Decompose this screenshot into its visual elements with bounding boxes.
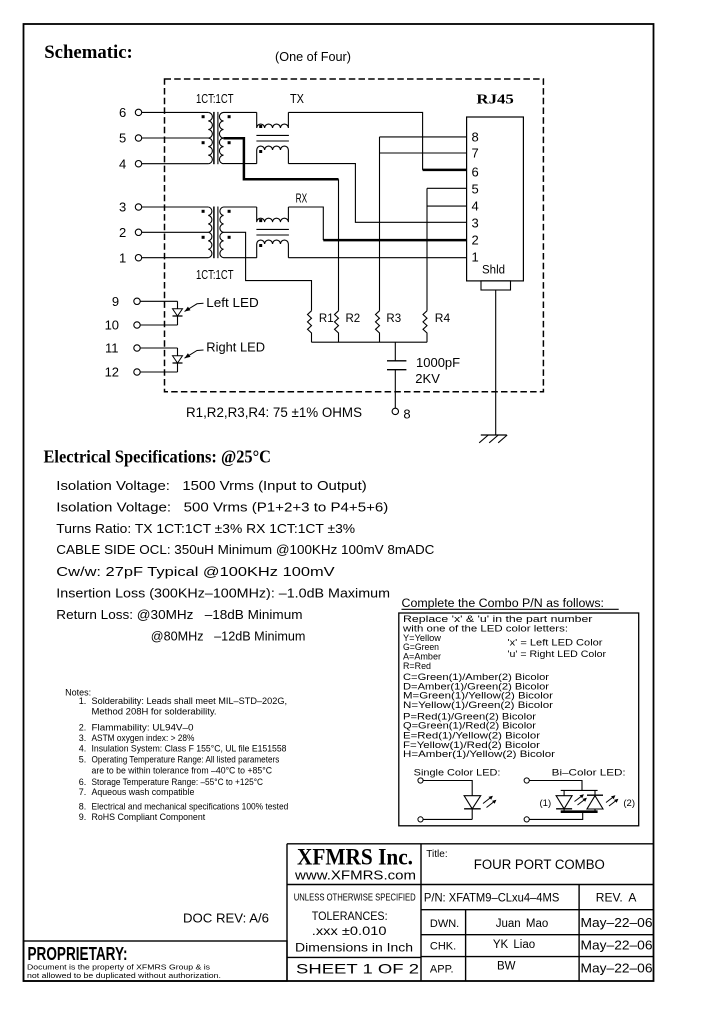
svg-text:7: 7 xyxy=(472,146,479,161)
svg-text:1000pF: 1000pF xyxy=(416,355,460,370)
transformer T2 primary dots xyxy=(202,210,205,213)
svg-text:Left LED: Left LED xyxy=(206,295,258,310)
svg-text:6: 6 xyxy=(472,164,479,179)
svg-text:3: 3 xyxy=(119,200,126,215)
choke RX top winding xyxy=(257,207,289,222)
svg-text:Solderability: Leads shall mee: Solderability: Leads shall meet MIL–STD–… xyxy=(92,696,288,706)
combo box frame xyxy=(399,613,639,826)
svg-text:R4: R4 xyxy=(435,311,451,325)
svg-text:R=Red: R=Red xyxy=(403,661,431,671)
svg-text:3.: 3. xyxy=(79,733,87,743)
wire RX bottom to RJ45 pin1 xyxy=(288,257,466,259)
node pin 4 xyxy=(135,161,141,167)
svg-text:(1): (1) xyxy=(540,798,552,809)
svg-text:Juan Mao: Juan Mao xyxy=(496,918,549,930)
wire T2 secondary bottom to RX choke bottom xyxy=(224,257,257,259)
wire TX top to RJ45 pin6 vertical route xyxy=(288,112,422,169)
node pin 5 xyxy=(135,135,141,141)
bicolor top rail xyxy=(561,789,598,791)
svg-text:Document is the property of XF: Document is the property of XFMRS Group … xyxy=(27,962,210,971)
transformer T1 primary dots xyxy=(202,115,205,118)
transformer T2 core xyxy=(213,207,215,259)
svg-text:6.: 6. xyxy=(79,777,87,787)
wire T1 secondary bottom to TX choke bottom xyxy=(224,163,257,165)
svg-text:10: 10 xyxy=(105,318,119,333)
bicolor bottom rail thick xyxy=(561,810,598,813)
svg-text:N=Yellow(1)/Green(2) Bicolor: N=Yellow(1)/Green(2) Bicolor xyxy=(403,700,553,710)
wire R2 vertical xyxy=(338,179,340,311)
svg-text:CHK.: CHK. xyxy=(430,940,456,952)
title block frame lines xyxy=(287,843,654,845)
svg-text:Aqueous wash compatible: Aqueous wash compatible xyxy=(92,787,195,797)
svg-text:8: 8 xyxy=(472,130,479,145)
svg-text:1CT:1CT: 1CT:1CT xyxy=(196,91,234,106)
svg-text:REV. A: REV. A xyxy=(596,891,637,905)
resistor R2 xyxy=(335,311,339,342)
choke TX top winding xyxy=(257,112,289,128)
wire thick stub to RJ45 pin2 xyxy=(323,239,466,242)
svg-text:May–22–06: May–22–06 xyxy=(581,961,653,975)
node pin 2 xyxy=(135,229,141,235)
svg-text:5.: 5. xyxy=(79,754,87,764)
resistor R1 xyxy=(308,311,312,342)
wire T1 secondary top to TX choke xyxy=(224,111,257,113)
transformer T1 secondary dots xyxy=(228,115,231,118)
bicolor wires top xyxy=(529,781,582,791)
node pin 6 xyxy=(135,109,141,115)
svg-text:CABLE SIDE OCL: 350uH Minimum: CABLE SIDE OCL: 350uH Minimum @100KHz 10… xyxy=(56,542,434,557)
choke TX top dot xyxy=(259,125,262,128)
transformer T2 secondary dots xyxy=(228,210,231,213)
wire thick stub to RJ45 pin6 xyxy=(423,169,467,172)
svg-text:Turns Ratio: TX 1CT:1CT ±3% RX: Turns Ratio: TX 1CT:1CT ±3% RX 1CT:1CT ±… xyxy=(56,521,355,536)
svg-text:(2): (2) xyxy=(623,798,635,809)
svg-text:May–22–06: May–22–06 xyxy=(581,916,653,930)
proprietary box xyxy=(24,941,288,981)
svg-text:Electrical and mechanical spec: Electrical and mechanical specifications… xyxy=(92,801,289,811)
wire T2 center tap route to R1 xyxy=(224,232,312,310)
node pin 9 xyxy=(134,298,140,304)
choke TX bottom dot xyxy=(259,150,262,153)
svg-text:'x' = Left LED Color: 'x' = Left LED Color xyxy=(508,638,603,648)
svg-text:Q=Green(1)/Red(2) Bicolor: Q=Green(1)/Red(2) Bicolor xyxy=(403,721,536,731)
wire RJ45 pin8 xyxy=(380,136,467,138)
svg-text:9: 9 xyxy=(112,294,119,309)
resistor R3 xyxy=(376,311,380,342)
svg-text:APP.: APP. xyxy=(430,963,454,975)
svg-text:4: 4 xyxy=(472,199,479,214)
wire resistor common rail xyxy=(312,341,428,343)
LED D2 right xyxy=(140,347,177,349)
svg-text:1: 1 xyxy=(472,250,479,265)
svg-text:2.: 2. xyxy=(79,722,87,732)
choke RX bottom dot xyxy=(259,244,262,247)
svg-text:7.: 7. xyxy=(79,787,87,797)
choke RX bottom winding xyxy=(257,240,289,258)
svg-text:5: 5 xyxy=(472,182,479,197)
wire RJ45 pin7 xyxy=(380,152,467,154)
svg-text:Method 208H for solderability.: Method 208H for solderability. xyxy=(92,706,217,716)
svg-text:1: 1 xyxy=(119,250,126,265)
svg-text:6: 6 xyxy=(119,105,126,120)
svg-text:Right LED: Right LED xyxy=(206,340,265,355)
svg-text:are to be within tolerance fro: are to be within tolerance from –40°C to… xyxy=(92,765,273,775)
bicolor LED D4 (1) xyxy=(563,790,565,795)
svg-text:Isolation Voltage: 500 Vrms: Isolation Voltage: 500 Vrms (P1+2+3 to P… xyxy=(56,500,388,515)
svg-text:BW: BW xyxy=(497,961,516,973)
svg-text:4: 4 xyxy=(119,156,126,171)
choke RX top dot xyxy=(259,219,262,222)
dashed schematic boundary box xyxy=(165,79,544,392)
transformer T2 secondary winding xyxy=(220,207,224,258)
svg-text:ASTM oxygen index: > 28%: ASTM oxygen index: > 28% xyxy=(92,733,195,743)
svg-text:May–22–06: May–22–06 xyxy=(581,938,653,952)
wire T1 center tap thick route to R2 xyxy=(224,138,339,179)
svg-text:Insulation System: Class F 155: Insulation System: Class F 155°C, UL fil… xyxy=(92,744,287,754)
bicolor LED D5 (2) xyxy=(587,794,603,796)
svg-text:Single Color LED:: Single Color LED: xyxy=(414,768,501,779)
svg-text:Schematic:: Schematic: xyxy=(44,42,133,63)
svg-text:FOUR PORT COMBO: FOUR PORT COMBO xyxy=(474,857,605,872)
LED D2 leader arrow xyxy=(185,350,204,358)
choke TX bottom winding xyxy=(257,146,289,164)
svg-text:1CT:1CT: 1CT:1CT xyxy=(196,267,234,282)
node 8 terminal xyxy=(392,408,398,414)
svg-text:2: 2 xyxy=(472,233,479,248)
ground xyxy=(481,434,507,436)
svg-text:TOLERANCES:: TOLERANCES: xyxy=(312,909,388,923)
wire RX top to pin2 vertical route xyxy=(288,207,323,240)
wire R3 vertical xyxy=(379,137,381,311)
svg-text:H=Amber(1)/Yellow(2) Bicolor: H=Amber(1)/Yellow(2) Bicolor xyxy=(403,749,555,759)
capacitor C1 1000pF xyxy=(394,342,396,361)
svg-text:5: 5 xyxy=(119,131,126,146)
svg-text:Flammability: UL94V–0: Flammability: UL94V–0 xyxy=(92,722,194,732)
svg-text:Title:: Title: xyxy=(426,849,447,860)
svg-text:@80MHz –12dB Minimum: @80MHz –12dB Minimum xyxy=(151,629,306,644)
svg-text:Shld: Shld xyxy=(482,265,505,277)
node pin 1 xyxy=(135,255,141,261)
svg-text:RoHS Compliant Component: RoHS Compliant Component xyxy=(92,812,206,822)
transformer T1 primary winding xyxy=(208,112,212,163)
svg-text:8.: 8. xyxy=(79,801,87,811)
svg-text:DOC REV: A/6: DOC REV: A/6 xyxy=(183,912,269,926)
wire pin2 to T2 primary tap xyxy=(142,231,209,233)
single LED emission arrows xyxy=(483,797,492,804)
svg-text:DWN.: DWN. xyxy=(430,918,459,930)
svg-text:R1,R2,R3,R4: 75 ±1% OHMS: R1,R2,R3,R4: 75 ±1% OHMS xyxy=(186,405,362,420)
single LED wires xyxy=(423,781,472,796)
svg-text:R2: R2 xyxy=(346,313,361,325)
wire pin5 to T1 primary tap xyxy=(142,137,209,139)
svg-text:RX: RX xyxy=(296,191,308,206)
resistor R4 xyxy=(423,311,427,342)
node pin 11 xyxy=(134,345,140,351)
single LED D3 xyxy=(464,796,481,809)
svg-text:4.: 4. xyxy=(79,744,87,754)
connector RJ45 body xyxy=(467,117,524,281)
svg-text:(One of Four): (One of Four) xyxy=(275,49,351,64)
wire TX bottom to RJ45 pin3 xyxy=(288,164,466,223)
svg-text:Operating Temperature Range: A: Operating Temperature Range: All listed … xyxy=(92,754,280,764)
svg-text:UNLESS OTHERWISE SPECIFIED: UNLESS OTHERWISE SPECIFIED xyxy=(294,893,416,904)
svg-text:PROPRIETARY:: PROPRIETARY: xyxy=(28,944,128,964)
svg-text:2KV: 2KV xyxy=(415,371,440,386)
svg-text:Bi–Color LED:: Bi–Color LED: xyxy=(552,768,626,779)
wire shield to ground xyxy=(495,290,497,435)
svg-text:YK Liao: YK Liao xyxy=(493,939,535,951)
node pin 10 xyxy=(134,322,140,328)
svg-text:.xxx ±0.010: .xxx ±0.010 xyxy=(312,924,387,938)
svg-text:SHEET 1 OF 2: SHEET 1 OF 2 xyxy=(296,960,419,976)
svg-text:R1: R1 xyxy=(319,313,334,325)
svg-text:XFMRS Inc.: XFMRS Inc. xyxy=(297,845,413,870)
svg-text:Complete the Combo P/N as foll: Complete the Combo P/N as follows: xyxy=(402,598,605,610)
bicolor bottom wire xyxy=(529,812,582,820)
svg-text:Dimensions in Inch: Dimensions in Inch xyxy=(295,940,413,954)
bicolor terminal top xyxy=(524,778,529,783)
svg-text:'u' = Right LED Color: 'u' = Right LED Color xyxy=(508,649,607,659)
wire R4 vertical xyxy=(426,188,428,310)
single LED terminal top xyxy=(418,778,423,783)
single LED bottom wire xyxy=(423,818,472,820)
svg-text:Cw/w: 27pF Typical @100KHz 100: Cw/w: 27pF Typical @100KHz 100mV xyxy=(56,564,335,579)
svg-text:1.: 1. xyxy=(79,696,87,706)
wire pin4 to T1 primary bottom xyxy=(142,163,209,165)
svg-text:12: 12 xyxy=(105,365,119,380)
svg-text:TX: TX xyxy=(290,91,304,106)
choke TX core xyxy=(256,134,289,136)
node pin 3 xyxy=(135,204,141,210)
svg-text:8: 8 xyxy=(403,407,410,422)
svg-text:not allowed to be duplicated w: not allowed to be duplicated without aut… xyxy=(27,971,221,980)
svg-text:R3: R3 xyxy=(386,313,401,325)
svg-text:Isolation Voltage: 1500 Vrms: Isolation Voltage: 1500 Vrms (Input to O… xyxy=(56,478,366,493)
svg-text:3: 3 xyxy=(472,216,479,231)
svg-text:11: 11 xyxy=(105,341,119,356)
wire RJ45 pin5 xyxy=(427,187,467,189)
wire T2 secondary top to RX choke xyxy=(224,206,257,208)
svg-text:2: 2 xyxy=(119,225,126,240)
svg-text:Electrical Specifications: @25: Electrical Specifications: @25°C xyxy=(44,446,272,466)
transformer T1 secondary winding xyxy=(219,112,223,163)
bicolor emission arrows LED2 xyxy=(606,796,615,803)
wire pin6 to T1 primary top xyxy=(142,111,209,113)
svg-text:9.: 9. xyxy=(79,812,87,822)
svg-text:Return Loss: @30MHz –18dB Mi: Return Loss: @30MHz –18dB Minimum xyxy=(56,607,302,622)
LED D1 leader arrow xyxy=(185,303,204,311)
wire pin3 to T2 primary top xyxy=(142,206,209,208)
wire RJ45 pin4 xyxy=(427,205,467,207)
svg-text:RJ45: RJ45 xyxy=(476,93,514,108)
node pin 12 xyxy=(134,369,140,375)
svg-text:Insertion Loss (300KHz–100MHz): Insertion Loss (300KHz–100MHz): –1.0dB M… xyxy=(56,585,390,600)
transformer T1 core xyxy=(213,112,215,164)
svg-text:Storage Temperature Range: –55: Storage Temperature Range: –55°C to +125… xyxy=(92,777,264,787)
svg-text:www.XFMRS.com: www.XFMRS.com xyxy=(294,868,416,883)
choke RX core xyxy=(256,228,289,230)
transformer T2 primary winding xyxy=(208,207,212,258)
svg-text:P/N: XFATM9–CLxu4–4MS: P/N: XFATM9–CLxu4–4MS xyxy=(424,891,559,905)
RJ45 shield tab xyxy=(481,281,511,290)
LED D1 left xyxy=(140,300,177,302)
wire pin1 to T2 primary bottom xyxy=(142,257,209,259)
bicolor emission arrows LED1 xyxy=(575,795,584,802)
